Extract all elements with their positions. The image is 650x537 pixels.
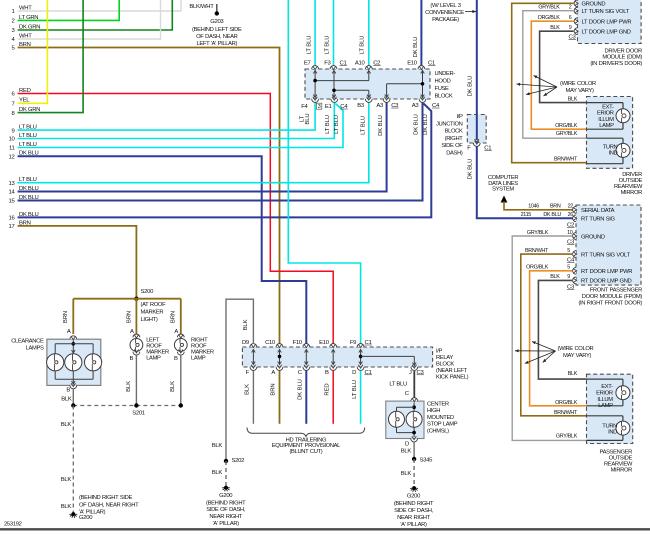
wire GRY/BLK FPDM 10 to passenger turn ind xyxy=(512,236,587,440)
wire BLK S202 to G200 (dashed) xyxy=(225,461,227,487)
svg-text:PASSENGER: PASSENGER xyxy=(599,449,632,455)
svg-text:(IN RIGHT FRONT DOOR): (IN RIGHT FRONT DOOR) xyxy=(578,301,642,307)
svg-text:12: 12 xyxy=(9,155,15,161)
svg-text:B3: B3 xyxy=(357,103,365,109)
svg-text:1: 1 xyxy=(12,9,15,15)
svg-text:KICK PANEL): KICK PANEL) xyxy=(436,375,469,381)
svg-text:GRY/BLK: GRY/BLK xyxy=(556,433,578,439)
svg-text:(RIGHT: (RIGHT xyxy=(445,136,464,142)
clearance lamp bulb 3 xyxy=(85,354,102,371)
svg-text:9: 9 xyxy=(569,25,572,31)
svg-text:GRY/BLK: GRY/BLK xyxy=(556,131,578,137)
svg-text:2: 2 xyxy=(569,5,572,11)
svg-text:F4: F4 xyxy=(301,104,308,110)
svg-text:ERIOR: ERIOR xyxy=(597,111,614,117)
svg-text:CONVENIENCE: CONVENIENCE xyxy=(425,10,464,16)
svg-text:A: A xyxy=(67,329,71,335)
wire BLK blunt cut below relay block xyxy=(252,371,254,424)
svg-text:NEAR RIGHT: NEAR RIGHT xyxy=(397,515,430,521)
circuit tag 3 xyxy=(316,103,321,109)
svg-text:OF DASH, NEAR: OF DASH, NEAR xyxy=(196,34,238,40)
svg-text:HIGH: HIGH xyxy=(427,408,440,414)
svg-text:MAY VARY): MAY VARY) xyxy=(566,88,594,94)
svg-text:(W/ LEVEL 3: (W/ LEVEL 3 xyxy=(430,3,460,9)
svg-text:SERIAL DATA: SERIAL DATA xyxy=(581,208,615,214)
svg-text:B: B xyxy=(174,356,178,362)
fuse block internal E10-A3 with tap to A3 xyxy=(422,71,424,98)
svg-text:GROUND: GROUND xyxy=(581,234,605,240)
clearance lamps pin B xyxy=(70,385,77,388)
svg-text:11: 11 xyxy=(9,146,15,152)
wire DK BLU blunt cut below relay block xyxy=(305,371,307,424)
svg-text:SIDE OF: SIDE OF xyxy=(441,143,463,149)
wire 7 YEL to top edge xyxy=(18,0,48,103)
svg-text:FUSE: FUSE xyxy=(435,86,450,92)
svg-text:TURN: TURN xyxy=(603,144,618,150)
relay block pin D xyxy=(357,367,364,370)
svg-text:LAMP: LAMP xyxy=(598,403,613,409)
svg-text:EXT-: EXT- xyxy=(602,104,614,110)
CHMSL pin D xyxy=(411,439,418,442)
svg-text:BRN: BRN xyxy=(63,311,69,323)
svg-text:RT TURN SIG: RT TURN SIG xyxy=(581,217,616,223)
relay block internal D9 xyxy=(252,350,254,365)
wire DK BLU junction block to FPDM RT TURN SIG xyxy=(477,146,573,218)
passenger turn indicator xyxy=(616,421,630,435)
svg-text:LT BLU: LT BLU xyxy=(334,115,340,134)
fuse block pin A10 xyxy=(365,66,372,69)
svg-text:15: 15 xyxy=(9,199,16,205)
svg-text:3: 3 xyxy=(318,104,321,110)
svg-text:BLK: BLK xyxy=(243,319,249,330)
svg-text:DASH): DASH) xyxy=(446,151,463,157)
brace HD trailering xyxy=(247,428,365,437)
svg-text:LEFT 'A' PILLAR): LEFT 'A' PILLAR) xyxy=(197,41,238,47)
svg-text:BLK: BLK xyxy=(401,449,412,455)
svg-text:BLK: BLK xyxy=(245,384,251,395)
svg-text:MOUNTED: MOUNTED xyxy=(427,415,454,421)
DDM pin GROUND xyxy=(574,0,577,7)
svg-text:STOP LAMP: STOP LAMP xyxy=(427,422,458,428)
svg-text:DK BLU: DK BLU xyxy=(378,115,384,136)
svg-text:LT BLU: LT BLU xyxy=(325,36,331,55)
svg-text:SYSTEM: SYSTEM xyxy=(492,186,514,192)
wire BLK left marker to S201 xyxy=(135,355,137,406)
wire BLK clearance lamps to S201 xyxy=(72,389,74,406)
svg-text:S202: S202 xyxy=(232,458,245,464)
svg-text:BLOCK: BLOCK xyxy=(445,129,463,135)
wire 4 WHT to top edge xyxy=(18,0,161,39)
svg-text:LAMPS: LAMPS xyxy=(26,346,44,352)
svg-text:BLOCK: BLOCK xyxy=(436,362,454,368)
relay block pin A xyxy=(276,367,283,370)
svg-text:SIDE OF DASH,: SIDE OF DASH, xyxy=(206,507,246,513)
svg-text:13: 13 xyxy=(9,181,16,187)
wire 11 LT BLU to fuse block pin E1 (jogged) xyxy=(18,104,343,148)
svg-text:DK BLU: DK BLU xyxy=(468,159,474,180)
svg-text:'A' PILLAR): 'A' PILLAR) xyxy=(79,510,106,516)
svg-text:ILLUM: ILLUM xyxy=(597,397,613,403)
relay block pin F9 xyxy=(357,344,364,347)
driver mirror internal wires xyxy=(587,102,624,104)
svg-text:GROUND: GROUND xyxy=(582,1,606,7)
svg-text:D: D xyxy=(405,442,409,448)
wire BRN to clearance lamps xyxy=(72,299,74,334)
svg-text:BRN: BRN xyxy=(170,311,176,323)
fuse block pin E10 xyxy=(418,66,425,69)
svg-text:BLK: BLK xyxy=(568,97,578,103)
svg-text:LT BLU: LT BLU xyxy=(360,116,366,135)
svg-text:ILLUM: ILLUM xyxy=(598,117,614,123)
svg-text:S200: S200 xyxy=(141,289,155,295)
wire BRN S200 distribution xyxy=(73,298,181,300)
svg-text:BLU: BLU xyxy=(305,113,311,124)
svg-text:BLK: BLK xyxy=(61,477,72,483)
wire BLK S345 to G200 (dashed) xyxy=(413,459,415,488)
svg-text:2: 2 xyxy=(12,19,15,25)
svg-text:A: A xyxy=(130,329,134,335)
ground G203 xyxy=(215,11,219,15)
svg-text:LT BLU: LT BLU xyxy=(360,36,366,55)
driver turn indicator xyxy=(616,143,630,157)
splice S200 xyxy=(134,297,138,301)
svg-text:LT TURN SIG VOLT: LT TURN SIG VOLT xyxy=(582,9,630,15)
svg-text:UNDER-: UNDER- xyxy=(435,71,456,77)
relay block pin B xyxy=(330,367,337,370)
passenger outside rearview mirror box xyxy=(587,374,633,443)
FPDM pin 9 RT DOOR LMP GND xyxy=(573,277,576,284)
wire BRN blunt cut below relay block xyxy=(279,371,281,424)
svg-text:9: 9 xyxy=(12,128,15,134)
wire 15 DK BLU to fuse block pin A3 (second) xyxy=(18,102,423,201)
svg-text:E1: E1 xyxy=(325,104,332,110)
svg-text:G200: G200 xyxy=(407,494,421,500)
relay block internal F9 xyxy=(360,350,362,365)
fuse block pin A3 second xyxy=(419,99,426,102)
passenger exterior illum lamp xyxy=(616,386,630,400)
svg-text:TURN: TURN xyxy=(602,423,617,429)
svg-text:A10: A10 xyxy=(355,61,366,67)
CHMSL bulb 1 xyxy=(389,411,405,427)
svg-text:DRIVER DOOR: DRIVER DOOR xyxy=(605,48,643,54)
svg-text:BRN/WHT: BRN/WHT xyxy=(554,157,578,163)
wire LT BLU from top edge to fuse pin E7 xyxy=(314,0,316,66)
relay block pin C10 xyxy=(276,344,283,347)
svg-text:MIRROR: MIRROR xyxy=(611,468,633,474)
svg-text:BLK: BLK xyxy=(212,470,223,476)
wire BRN to right roof marker lamp xyxy=(180,299,182,334)
svg-text:E10: E10 xyxy=(407,61,418,67)
svg-text:5: 5 xyxy=(567,265,570,271)
relay block pin J xyxy=(411,367,418,370)
clearance lamps internal xyxy=(72,341,74,354)
svg-text:'A' PILLAR): 'A' PILLAR) xyxy=(400,522,427,528)
wire 1 WHT to top edge xyxy=(18,0,181,11)
svg-text:1046: 1046 xyxy=(528,204,539,210)
svg-text:ORG/BLK: ORG/BLK xyxy=(555,123,578,129)
relay block internal E10 xyxy=(332,350,334,365)
svg-text:G200: G200 xyxy=(219,493,233,499)
right roof marker lamp xyxy=(177,334,184,337)
wire DK BLU from top edge to fuse pin E10 xyxy=(420,0,422,66)
svg-text:BLK/WHT: BLK/WHT xyxy=(189,4,214,10)
relay block internal F10 xyxy=(305,350,307,365)
FPDM pin 26 RT TURN SIG xyxy=(573,215,576,222)
wire BLK relay D9 to splice S202 xyxy=(226,299,253,461)
svg-text:BLK: BLK xyxy=(61,397,72,403)
wire ORG/BLK DDM 6 to driver illum lamp xyxy=(531,21,586,129)
wire 14 DK BLU to fuse block pin A3 xyxy=(18,102,387,192)
svg-text:F3: F3 xyxy=(324,61,331,67)
svg-text:JUNCTION: JUNCTION xyxy=(436,121,463,127)
svg-text:(BEHIND LEFT SIDE: (BEHIND LEFT SIDE xyxy=(192,27,242,33)
svg-text:S201: S201 xyxy=(132,411,145,417)
svg-text:B: B xyxy=(325,370,329,376)
driver door module DDM xyxy=(578,0,642,44)
clearance lamp bulb 1 xyxy=(47,354,64,371)
fuse block internal F3-E1 with tap to B3 xyxy=(333,71,335,98)
fuse block pin E1 xyxy=(331,99,338,102)
svg-text:16: 16 xyxy=(9,216,16,222)
svg-text:2115: 2115 xyxy=(521,212,532,218)
svg-text:OUTSIDE: OUTSIDE xyxy=(609,456,633,462)
ground G200 (center) xyxy=(224,486,228,490)
svg-text:IND: IND xyxy=(608,430,617,436)
svg-text:ORG/BLK: ORG/BLK xyxy=(526,265,549,271)
svg-text:GRY/BLK: GRY/BLK xyxy=(538,5,560,11)
wire BLK right marker to S201 xyxy=(180,355,182,406)
clearance lamps pin A xyxy=(70,336,77,339)
relay block pin E10 xyxy=(330,344,337,347)
DDM pin 6 LT DOOR LMP PWR xyxy=(574,18,577,25)
svg-text:(WIRE COLOR: (WIRE COLOR xyxy=(558,346,594,352)
svg-text:MAY VARY): MAY VARY) xyxy=(563,353,591,359)
svg-text:LAMP: LAMP xyxy=(599,123,614,129)
svg-text:I/P: I/P xyxy=(456,114,463,120)
svg-text:BLK: BLK xyxy=(126,381,132,392)
front passenger door module FPDM xyxy=(576,205,641,285)
svg-text:G200: G200 xyxy=(79,515,93,521)
svg-text:A3: A3 xyxy=(412,103,420,109)
svg-text:E10: E10 xyxy=(319,340,330,346)
wire BLK/WHT stub to G203 xyxy=(216,4,218,13)
svg-text:ORG/BLK: ORG/BLK xyxy=(538,15,561,21)
svg-text:(BLUNT CUT): (BLUNT CUT) xyxy=(289,449,322,455)
wire 13 LT BLU to fuse block pin B3 xyxy=(18,102,369,183)
svg-text:BLK: BLK xyxy=(550,25,560,31)
wire LT BLU blunt cut below relay block xyxy=(360,371,362,424)
FPDM pin 5 RT TURN SIG VOLT xyxy=(573,251,576,258)
svg-text:HOOD: HOOD xyxy=(435,79,451,85)
svg-text:(NEAR LEFT: (NEAR LEFT xyxy=(436,368,468,374)
ground G200 (right) xyxy=(412,486,416,490)
svg-text:9: 9 xyxy=(567,274,570,280)
wire LT BLU from top edge to fuse pin A10 xyxy=(368,0,370,66)
wire BLK DDM 9 to driver illum lamp xyxy=(540,31,587,102)
svg-text:F10: F10 xyxy=(293,340,303,346)
svg-text:(AT ROOF: (AT ROOF xyxy=(141,302,167,308)
underhood fuse block xyxy=(305,69,430,99)
wire LT BLU from top edge to fuse pin F3 xyxy=(333,0,335,66)
svg-text:A3: A3 xyxy=(376,103,384,109)
relay block internal C10 xyxy=(279,350,281,365)
wire GRY/BLK DDM 2 to driver turn indicator xyxy=(523,11,587,139)
fuse block pin A3 xyxy=(383,99,390,102)
svg-text:'A' PILLAR): 'A' PILLAR) xyxy=(213,521,240,527)
svg-text:GRY/BLK: GRY/BLK xyxy=(527,230,549,236)
wire 12 DK BLU to I/P relay block pin F10 xyxy=(18,156,307,344)
svg-text:DK BLU: DK BLU xyxy=(298,379,304,400)
svg-text:BLOCK: BLOCK xyxy=(435,94,453,100)
svg-text:E7: E7 xyxy=(304,61,311,67)
svg-text:(CHMSL): (CHMSL) xyxy=(427,428,449,434)
driver exterior illum lamp xyxy=(616,109,630,123)
svg-text:B: B xyxy=(130,356,134,362)
clearance lamps box xyxy=(47,339,101,385)
svg-text:(WIRE COLOR: (WIRE COLOR xyxy=(560,81,596,87)
splice S201 dashed tie xyxy=(73,405,181,407)
wire BRN/WHT DDM GROUND to driver turn indicator xyxy=(512,3,587,162)
splice S345 xyxy=(412,457,416,461)
wire 8 DK GRN to top edge xyxy=(18,0,84,113)
svg-text:B: B xyxy=(66,388,70,394)
svg-text:10: 10 xyxy=(567,230,573,236)
fuse block internal E7-F4 with tap to A10 xyxy=(314,71,316,98)
wire BRN to left roof marker lamp xyxy=(135,299,137,334)
svg-text:NEAR RIGHT: NEAR RIGHT xyxy=(209,514,242,520)
svg-text:5: 5 xyxy=(567,248,570,254)
svg-text:MIRROR: MIRROR xyxy=(621,190,643,196)
svg-text:253192: 253192 xyxy=(4,522,22,528)
svg-text:BLK: BLK xyxy=(212,443,223,449)
svg-text:LT DOOR LMP PWR: LT DOOR LMP PWR xyxy=(582,20,632,26)
CHMSL internal wiring xyxy=(413,403,415,411)
svg-text:(BEHIND RIGHT: (BEHIND RIGHT xyxy=(206,501,246,507)
DDM pin 9 LT DOOR LMP GND xyxy=(574,28,577,35)
svg-text:BRN/WHT: BRN/WHT xyxy=(554,410,578,416)
svg-text:BRN: BRN xyxy=(271,383,277,395)
wire BRN/WHT FPDM 5 to passenger turn ind xyxy=(521,254,587,416)
svg-text:LAMP: LAMP xyxy=(191,355,206,361)
I/P junction block xyxy=(467,115,486,144)
svg-text:G203: G203 xyxy=(210,19,224,25)
relay block pin C xyxy=(303,367,310,370)
svg-text:SIDE OF DASH,: SIDE OF DASH, xyxy=(394,508,434,514)
svg-text:EXT-: EXT- xyxy=(601,384,613,390)
fuse block pin B3 xyxy=(365,99,372,102)
svg-text:ORG/BLK: ORG/BLK xyxy=(555,400,578,406)
svg-text:MARKER: MARKER xyxy=(141,310,164,316)
svg-text:DK BLU: DK BLU xyxy=(467,76,473,97)
wire RED blunt cut below relay block xyxy=(332,371,334,424)
svg-text:LT BLU: LT BLU xyxy=(325,115,331,134)
svg-text:F9: F9 xyxy=(350,340,356,346)
relay block pin F10 xyxy=(303,344,310,347)
svg-text:LT BLU: LT BLU xyxy=(352,380,358,399)
svg-text:J: J xyxy=(409,370,412,376)
svg-text:RT TURN SIG VOLT: RT TURN SIG VOLT xyxy=(581,252,630,258)
wire BRN serial data to FPDM xyxy=(504,202,573,210)
wire 5 BRN to I/P relay block pin C10 xyxy=(18,48,280,345)
svg-text:LT BLU: LT BLU xyxy=(389,382,407,388)
svg-text:A: A xyxy=(174,329,178,335)
svg-text:IND: IND xyxy=(608,151,617,157)
driver outside rearview mirror box xyxy=(587,97,633,169)
svg-text:BLK: BLK xyxy=(401,471,412,477)
svg-text:LAMP: LAMP xyxy=(146,355,161,361)
svg-text:DK BLU: DK BLU xyxy=(543,212,561,218)
svg-text:BRN: BRN xyxy=(550,204,561,210)
clearance lamp bulb 2 xyxy=(65,354,82,371)
svg-text:OF DASH, NEAR RIGHT: OF DASH, NEAR RIGHT xyxy=(79,503,139,509)
fuse block pin F4 xyxy=(312,99,319,102)
center high mounted stop lamp CHMSL xyxy=(386,401,424,438)
svg-text:I/P: I/P xyxy=(436,349,443,355)
wire 17 BRN to splice S200 xyxy=(18,226,137,299)
svg-text:CENTER: CENTER xyxy=(427,402,449,408)
wire 16 DK BLU to fuse block pin A3 (jogged) xyxy=(18,104,432,218)
wire 6 RED to I/P relay block pin E10 xyxy=(18,94,334,345)
svg-text:RT DOOR LMP GND: RT DOOR LMP GND xyxy=(581,279,632,285)
wire BLK FPDM 9 to passenger illum lamp xyxy=(538,280,586,379)
wire DK BLU from top edge through I/P junction block xyxy=(476,0,478,115)
svg-text:D: D xyxy=(352,370,356,376)
wire BLK S201 to G200 (dashed) xyxy=(72,406,74,514)
wire LT BLU from top edge to relay block pin F9 (jogged) xyxy=(288,0,360,344)
svg-text:BLK: BLK xyxy=(170,381,176,392)
relay block pin F xyxy=(250,367,257,370)
svg-text:(IN DRIVER'S DOOR): (IN DRIVER'S DOOR) xyxy=(590,61,642,67)
DDM pin 2 LT TURN SIG VOLT xyxy=(574,7,577,14)
svg-text:7: 7 xyxy=(12,102,15,108)
svg-text:BLK: BLK xyxy=(61,504,72,510)
svg-text:PACKAGE): PACKAGE) xyxy=(432,17,459,23)
FPDM pin 22 SERIAL DATA xyxy=(573,206,576,213)
splice S202 xyxy=(224,459,228,463)
I/P relay block xyxy=(242,347,432,367)
svg-text:BRN: BRN xyxy=(127,311,133,323)
FPDM pin 5 RT DOOR LMP PWR xyxy=(573,267,576,274)
left roof marker lamp xyxy=(133,334,140,337)
FPDM pin 10 GROUND xyxy=(573,233,576,240)
svg-text:BLK: BLK xyxy=(568,371,578,377)
ground G200 (left) xyxy=(71,512,75,516)
wire 9 LT BLU to fuse block pin F4 xyxy=(18,102,316,130)
svg-text:MODULE (DDM): MODULE (DDM) xyxy=(602,55,642,61)
svg-text:BLK: BLK xyxy=(550,274,560,280)
relay block pin D9 xyxy=(250,344,257,347)
wire LT BLU relay J to CHMSL pin C xyxy=(413,371,415,398)
bottom border xyxy=(0,528,650,530)
wire 10 LT BLU to fuse block pin E1 xyxy=(18,102,335,139)
svg-text:(BEHIND RIGHT SIDE: (BEHIND RIGHT SIDE xyxy=(79,495,132,501)
wire ORG/BLK FPDM 5 to passenger illum lamp xyxy=(530,271,587,406)
svg-text:DK BLU: DK BLU xyxy=(414,114,420,135)
svg-text:14: 14 xyxy=(9,190,16,196)
svg-text:ERIOR: ERIOR xyxy=(596,390,613,396)
passenger mirror internal wires xyxy=(587,378,623,380)
svg-text:17: 17 xyxy=(9,224,15,230)
svg-text:C10: C10 xyxy=(265,340,276,346)
svg-text:RELAY: RELAY xyxy=(436,355,453,361)
svg-text:FRONT PASSENGER: FRONT PASSENGER xyxy=(590,288,642,294)
svg-text:LT BLU: LT BLU xyxy=(307,36,313,55)
svg-text:RED: RED xyxy=(324,383,330,395)
svg-text:BRN/WHT: BRN/WHT xyxy=(525,248,549,254)
svg-text:LT DOOR LMP GND: LT DOOR LMP GND xyxy=(582,30,631,36)
svg-text:DK BLU: DK BLU xyxy=(413,37,419,58)
svg-text:A: A xyxy=(271,370,275,376)
